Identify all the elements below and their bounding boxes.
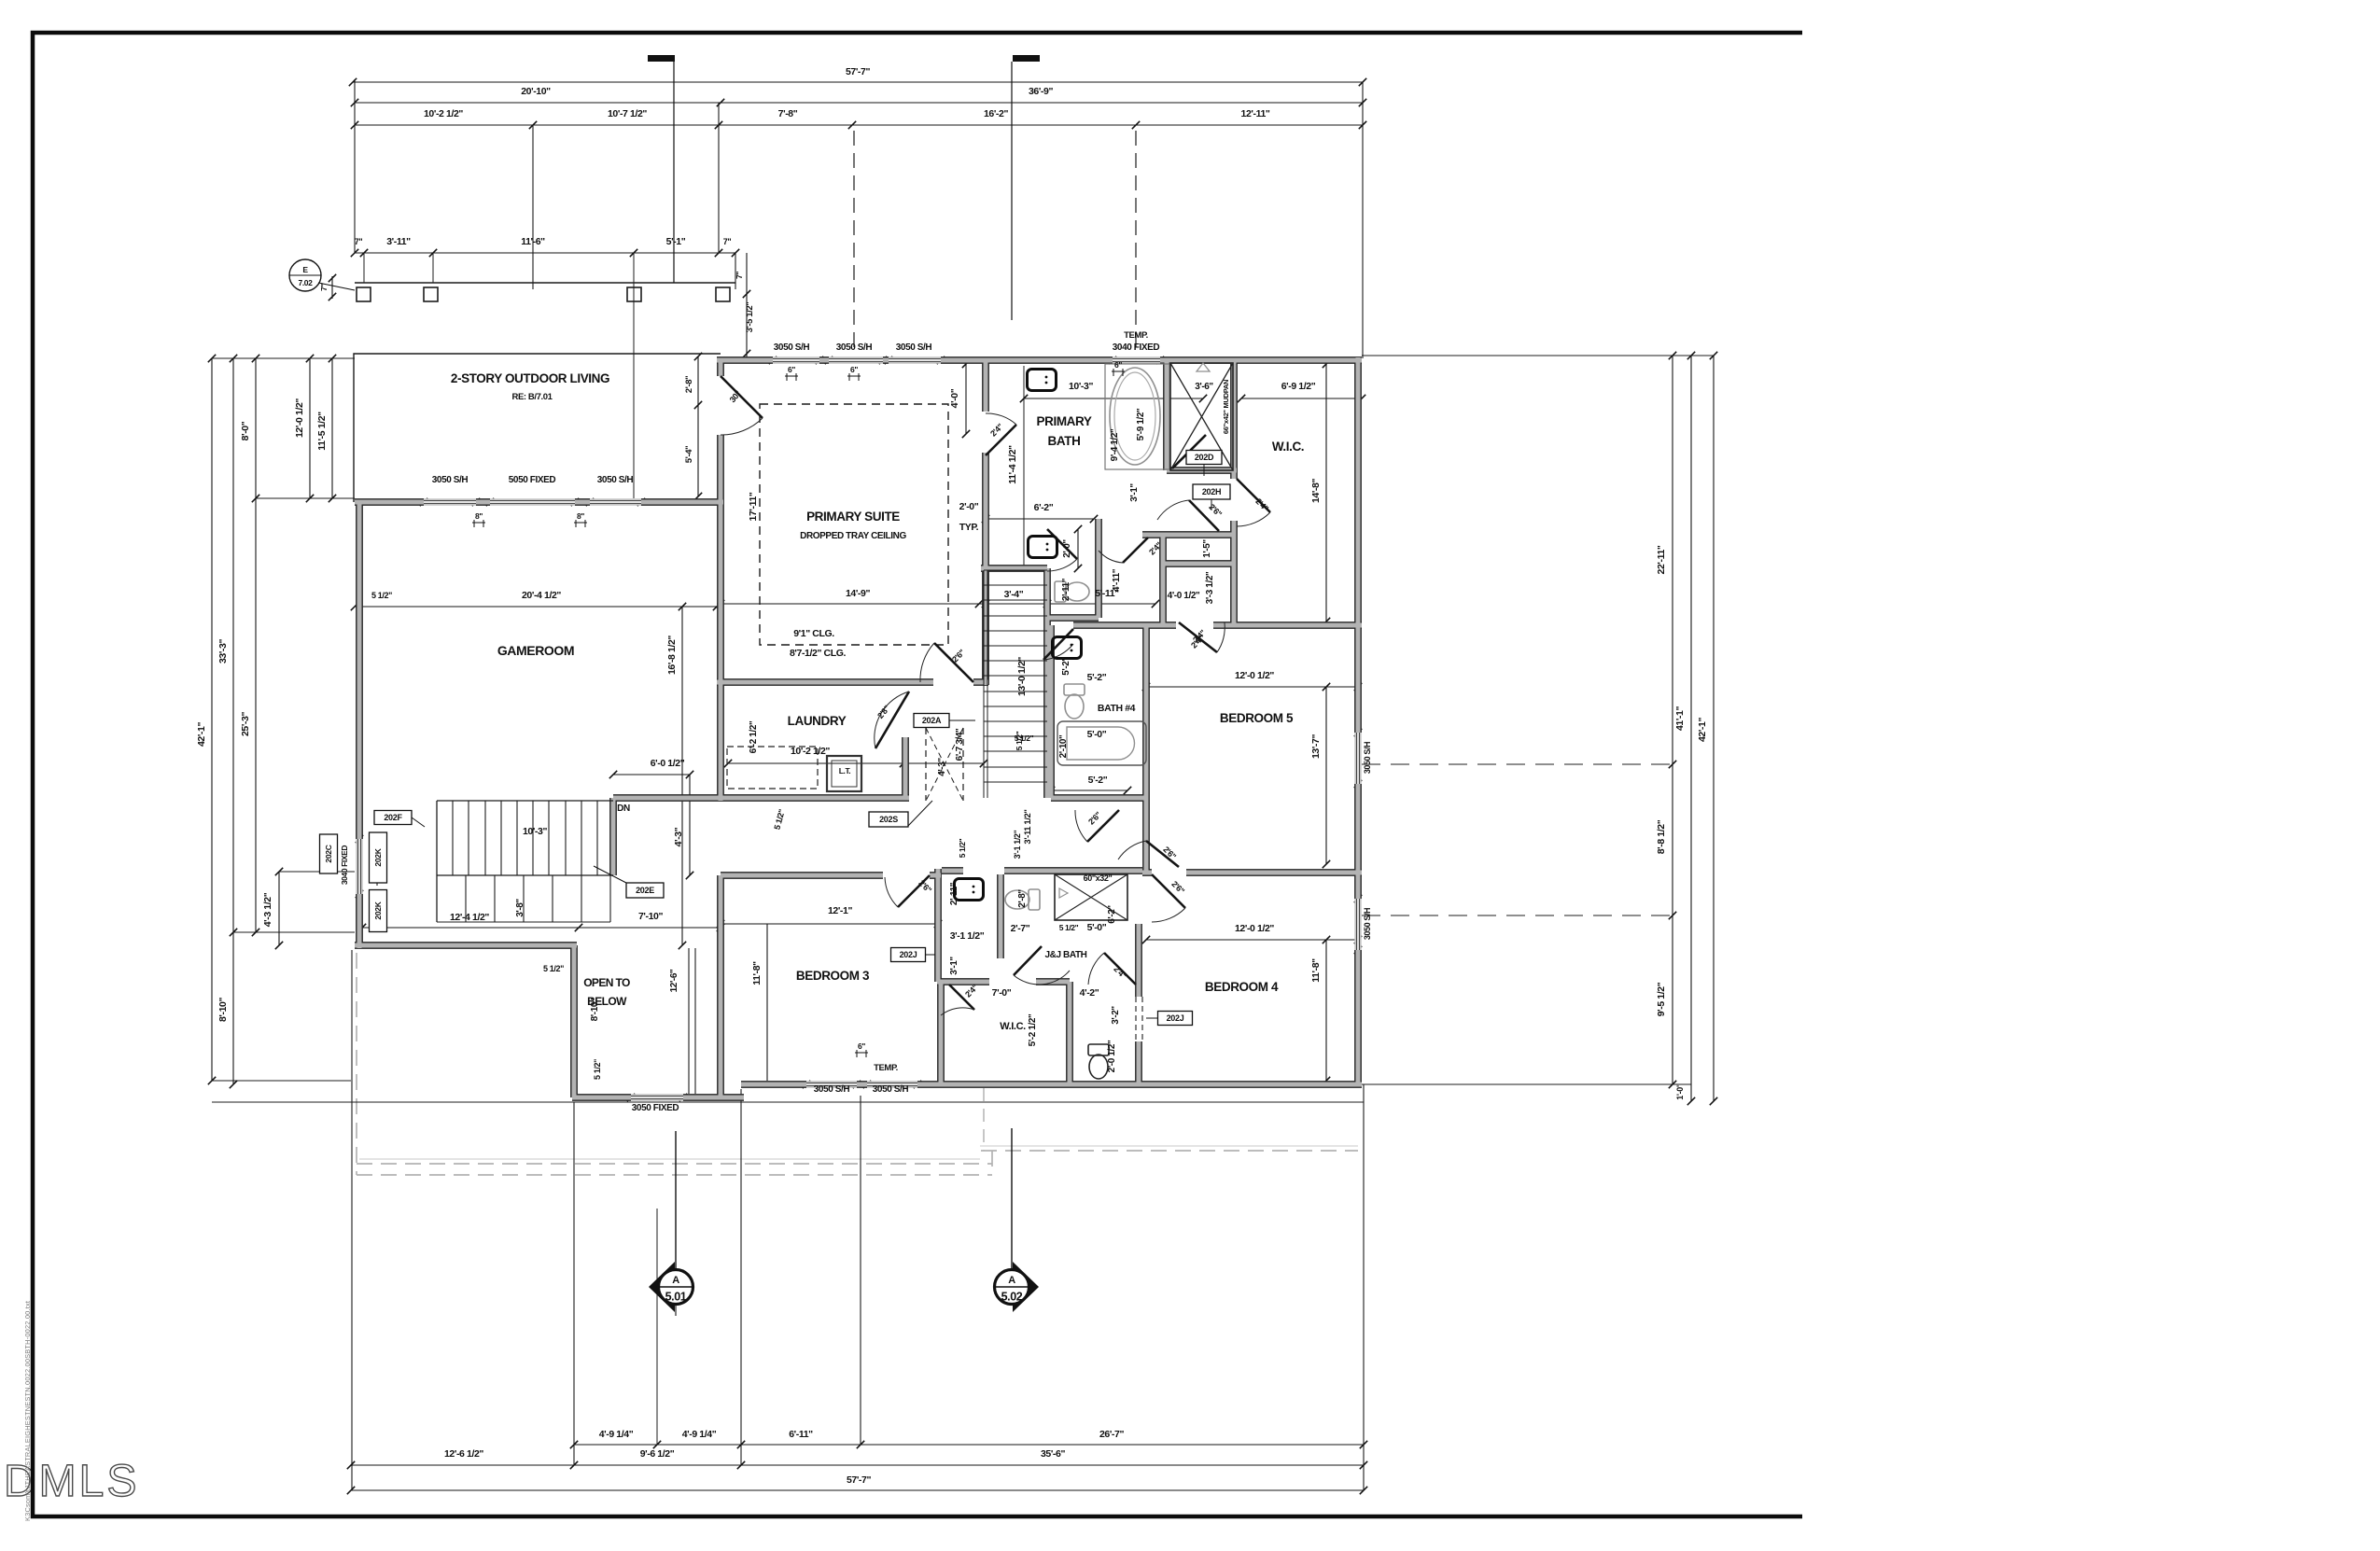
svg-text:GAMEROOM: GAMEROOM bbox=[497, 643, 574, 658]
svg-text:5.02: 5.02 bbox=[1001, 1291, 1023, 1304]
roof outline below (gray dashed) and misc dashed lines bbox=[760, 404, 948, 645]
svg-text:5'-1": 5'-1" bbox=[666, 236, 686, 247]
svg-text:4'-9 1/4": 4'-9 1/4" bbox=[682, 1429, 717, 1440]
svg-text:8'-8 1/2": 8'-8 1/2" bbox=[1656, 819, 1667, 854]
extension / grid thin lines bbox=[354, 79, 356, 253]
svg-text:2'-11": 2'-11" bbox=[1061, 578, 1071, 601]
svg-text:3040 FIXED: 3040 FIXED bbox=[1113, 342, 1160, 353]
svg-text:60"x32": 60"x32" bbox=[1084, 873, 1113, 883]
dimension tick slashes bbox=[208, 78, 1717, 1494]
svg-text:2'-11": 2'-11" bbox=[949, 882, 959, 905]
svg-text:7'-8": 7'-8" bbox=[778, 108, 798, 119]
svg-text:12'-1": 12'-1" bbox=[828, 905, 853, 916]
svg-text:4'-3": 4'-3" bbox=[937, 758, 947, 776]
svg-text:7'-0": 7'-0" bbox=[992, 987, 1012, 999]
svg-text:5'-4": 5'-4" bbox=[684, 446, 694, 464]
svg-text:BEDROOM 5: BEDROOM 5 bbox=[1220, 711, 1294, 725]
svg-text:41'-1": 41'-1" bbox=[1674, 706, 1686, 732]
svg-text:12'-4 1/2": 12'-4 1/2" bbox=[450, 912, 489, 923]
svg-text:9'-4 1/2": 9'-4 1/2" bbox=[1110, 428, 1120, 461]
svg-text:3'-8": 3'-8" bbox=[515, 899, 525, 917]
svg-text:2'-7": 2'-7" bbox=[1011, 923, 1030, 934]
svg-text:6'-7 3/4": 6'-7 3/4" bbox=[955, 728, 965, 761]
label boxes bbox=[1186, 451, 1222, 465]
svg-text:DROPPED TRAY CEILING: DROPPED TRAY CEILING bbox=[800, 531, 906, 541]
open-to-below railing bbox=[689, 948, 695, 1094]
svg-text:8'7-1/2" CLG.: 8'7-1/2" CLG. bbox=[790, 648, 847, 659]
svg-text:9'1" CLG.: 9'1" CLG. bbox=[793, 628, 834, 639]
svg-text:BELOW: BELOW bbox=[587, 995, 627, 1008]
svg-text:3050 S/H: 3050 S/H bbox=[597, 475, 634, 485]
svg-text:PRIMARY: PRIMARY bbox=[1037, 414, 1092, 428]
svg-text:17'-11": 17'-11" bbox=[748, 492, 759, 521]
svg-text:TEMP.: TEMP. bbox=[874, 1063, 898, 1073]
svg-text:9'-6 1/2": 9'-6 1/2" bbox=[640, 1448, 675, 1460]
svg-text:36'-9": 36'-9" bbox=[1029, 86, 1054, 97]
svg-text:E: E bbox=[302, 265, 308, 274]
svg-text:202F: 202F bbox=[384, 813, 402, 822]
svg-text:7.02: 7.02 bbox=[299, 278, 314, 287]
svg-text:8'-0": 8'-0" bbox=[240, 421, 251, 440]
svg-text:2-STORY OUTDOOR LIVING: 2-STORY OUTDOOR LIVING bbox=[451, 371, 609, 385]
svg-text:DN: DN bbox=[617, 803, 630, 814]
svg-text:5 1/2": 5 1/2" bbox=[371, 591, 392, 600]
svg-text:6": 6" bbox=[788, 365, 795, 374]
svg-text:7": 7" bbox=[319, 284, 329, 291]
svg-text:3040 FIXED: 3040 FIXED bbox=[340, 845, 349, 886]
svg-text:26'-7": 26'-7" bbox=[1099, 1429, 1125, 1440]
svg-text:4'-3": 4'-3" bbox=[673, 827, 684, 846]
svg-text:OPEN TO: OPEN TO bbox=[583, 976, 630, 989]
svg-text:3050 S/H: 3050 S/H bbox=[1363, 742, 1372, 774]
svg-text:7'-10": 7'-10" bbox=[638, 911, 664, 922]
svg-text:2'-0 1/2": 2'-0 1/2" bbox=[1107, 1040, 1117, 1072]
svg-text:5'-2": 5'-2" bbox=[1087, 672, 1107, 683]
svg-text:35'-6": 35'-6" bbox=[1041, 1448, 1066, 1460]
svg-text:5 1/2": 5 1/2" bbox=[958, 838, 967, 858]
svg-text:5 1/2": 5 1/2" bbox=[543, 964, 564, 973]
svg-text:25'-3": 25'-3" bbox=[240, 712, 251, 737]
svg-text:42'-1": 42'-1" bbox=[1697, 718, 1708, 743]
svg-text:5'-0": 5'-0" bbox=[1087, 922, 1107, 933]
svg-text:12'-0 1/2": 12'-0 1/2" bbox=[294, 398, 305, 438]
svg-text:3'-1": 3'-1" bbox=[949, 957, 959, 975]
svg-text:12'-0 1/2": 12'-0 1/2" bbox=[1235, 923, 1274, 934]
svg-text:5 1/2": 5 1/2" bbox=[593, 1059, 602, 1080]
svg-text:10'-3": 10'-3" bbox=[1069, 381, 1094, 392]
svg-text:3050 S/H: 3050 S/H bbox=[774, 342, 810, 353]
svg-text:6'-9 1/2": 6'-9 1/2" bbox=[1281, 381, 1316, 392]
svg-text:W.I.C.: W.I.C. bbox=[1272, 440, 1304, 454]
svg-text:J&J BATH: J&J BATH bbox=[1045, 950, 1087, 960]
svg-text:5050 FIXED: 5050 FIXED bbox=[509, 475, 556, 485]
svg-text:12'-11": 12'-11" bbox=[1241, 108, 1270, 119]
svg-text:7": 7" bbox=[355, 237, 363, 246]
svg-text:3'-11 1/2": 3'-11 1/2" bbox=[1023, 809, 1033, 844]
svg-text:4'-0": 4'-0" bbox=[949, 388, 960, 408]
svg-text:16'-8 1/2": 16'-8 1/2" bbox=[666, 636, 678, 675]
svg-text:6'-0 1/2": 6'-0 1/2" bbox=[651, 758, 685, 769]
svg-text:10'-2 1/2": 10'-2 1/2" bbox=[424, 108, 463, 119]
svg-text:K3CsomXJTHEASTRALEIGHESTNESTN.: K3CsomXJTHEASTRALEIGHESTNESTN.0022.00SBT… bbox=[23, 1301, 32, 1521]
svg-text:2'-8": 2'-8" bbox=[1017, 889, 1028, 908]
svg-text:3050 S/H: 3050 S/H bbox=[896, 342, 932, 353]
svg-text:A: A bbox=[1008, 1275, 1015, 1286]
svg-text:6'-2": 6'-2" bbox=[1034, 502, 1054, 513]
svg-text:16'-2": 16'-2" bbox=[984, 108, 1009, 119]
svg-text:4'-9 1/4": 4'-9 1/4" bbox=[599, 1429, 634, 1440]
svg-text:3050 S/H: 3050 S/H bbox=[432, 475, 469, 485]
svg-text:12'-6 1/2": 12'-6 1/2" bbox=[444, 1448, 483, 1460]
svg-text:202E: 202E bbox=[636, 886, 654, 895]
svg-text:10'-3": 10'-3" bbox=[523, 826, 548, 837]
stairs bbox=[983, 570, 985, 798]
svg-text:5'-2": 5'-2" bbox=[1088, 775, 1108, 786]
svg-text:202D: 202D bbox=[1195, 453, 1214, 462]
svg-text:1'-5": 1'-5" bbox=[1202, 539, 1212, 558]
svg-text:6": 6" bbox=[850, 365, 858, 374]
svg-text:2'-8": 2'-8" bbox=[684, 376, 694, 394]
svg-text:TYP.: TYP. bbox=[959, 522, 979, 533]
svg-text:5'-2": 5'-2" bbox=[1061, 657, 1071, 676]
outdoor living thin outline, beam and posts bbox=[354, 354, 721, 502]
svg-text:5'-2 1/2": 5'-2 1/2" bbox=[1028, 1013, 1038, 1046]
svg-text:4'-11": 4'-11" bbox=[1112, 568, 1122, 592]
svg-text:42'-1": 42'-1" bbox=[196, 722, 207, 748]
svg-text:202S: 202S bbox=[879, 815, 898, 824]
svg-text:14'-9": 14'-9" bbox=[846, 588, 871, 599]
svg-text:10'-2 1/2": 10'-2 1/2" bbox=[791, 746, 830, 757]
svg-text:6'-11": 6'-11" bbox=[789, 1429, 813, 1440]
svg-text:9'-5 1/2": 9'-5 1/2" bbox=[1656, 982, 1667, 1016]
svg-text:2'-0": 2'-0" bbox=[1062, 539, 1072, 558]
svg-text:5 1/2": 5 1/2" bbox=[1015, 731, 1024, 750]
svg-text:3050 S/H: 3050 S/H bbox=[873, 1084, 909, 1095]
walls: light core layer bbox=[355, 357, 1362, 1097]
svg-text:2'-10": 2'-10" bbox=[1058, 734, 1069, 758]
svg-text:2'-0": 2'-0" bbox=[959, 501, 979, 512]
svg-text:4'-3 1/2": 4'-3 1/2" bbox=[262, 892, 273, 927]
svg-text:202C: 202C bbox=[324, 845, 333, 862]
svg-text:3'-1 1/2": 3'-1 1/2" bbox=[950, 930, 985, 942]
svg-text:202J: 202J bbox=[900, 950, 917, 959]
svg-text:202K: 202K bbox=[373, 901, 383, 919]
doors bbox=[721, 376, 763, 418]
svg-text:14'-8": 14'-8" bbox=[1310, 479, 1322, 504]
svg-text:3'-6": 3'-6" bbox=[1195, 382, 1213, 392]
svg-text:6": 6" bbox=[1114, 360, 1122, 370]
svg-text:5'-9 1/2": 5'-9 1/2" bbox=[1136, 408, 1146, 440]
svg-text:11'-6": 11'-6" bbox=[521, 236, 545, 247]
svg-text:20'-10": 20'-10" bbox=[521, 86, 551, 97]
svg-text:5'-0": 5'-0" bbox=[1087, 729, 1107, 740]
svg-text:7": 7" bbox=[735, 272, 744, 279]
svg-text:3050 S/H: 3050 S/H bbox=[836, 342, 873, 353]
svg-text:5 1/2": 5 1/2" bbox=[1059, 923, 1079, 932]
svg-text:202K: 202K bbox=[373, 847, 383, 866]
svg-text:57'-7": 57'-7" bbox=[847, 1474, 872, 1486]
svg-text:202J: 202J bbox=[1167, 1013, 1184, 1023]
svg-text:BATH #4: BATH #4 bbox=[1098, 703, 1136, 714]
svg-text:3'-2": 3'-2" bbox=[1111, 1006, 1121, 1025]
svg-text:3'-1": 3'-1" bbox=[1129, 483, 1140, 502]
svg-text:W.I.C.: W.I.C. bbox=[1000, 1021, 1026, 1032]
svg-text:3050 S/H: 3050 S/H bbox=[814, 1084, 850, 1095]
svg-text:13'-7": 13'-7" bbox=[1310, 734, 1322, 760]
svg-text:202A: 202A bbox=[922, 716, 942, 725]
page border frame bbox=[33, 33, 1802, 1516]
svg-text:3'-5 1/2": 3'-5 1/2" bbox=[745, 302, 755, 333]
svg-text:5.01: 5.01 bbox=[665, 1291, 687, 1304]
svg-text:TEMP.: TEMP. bbox=[1124, 330, 1148, 341]
svg-text:6'-2 1/2": 6'-2 1/2" bbox=[749, 720, 759, 753]
svg-text:10'-7 1/2": 10'-7 1/2" bbox=[608, 108, 647, 119]
svg-text:L.T.: L.T. bbox=[839, 766, 851, 775]
dimension lines bbox=[212, 82, 1714, 1490]
svg-text:7": 7" bbox=[723, 237, 732, 246]
svg-text:11'-5 1/2": 11'-5 1/2" bbox=[316, 412, 328, 451]
windows bbox=[359, 360, 1358, 1097]
svg-text:3'-3 1/2": 3'-3 1/2" bbox=[1205, 571, 1215, 604]
section markers / tags bbox=[649, 1262, 675, 1312]
svg-text:3'-11": 3'-11" bbox=[386, 236, 411, 247]
svg-text:33'-3": 33'-3" bbox=[217, 639, 229, 664]
svg-text:LAUNDRY: LAUNDRY bbox=[788, 714, 847, 728]
svg-text:6'-2": 6'-2" bbox=[1107, 905, 1117, 924]
svg-text:BEDROOM 4: BEDROOM 4 bbox=[1205, 980, 1279, 994]
svg-text:8": 8" bbox=[475, 511, 483, 521]
svg-text:12'-6": 12'-6" bbox=[669, 969, 679, 992]
svg-text:8'-10": 8'-10" bbox=[217, 998, 229, 1023]
svg-text:RE: B/7.01: RE: B/7.01 bbox=[512, 392, 553, 402]
svg-text:202H: 202H bbox=[1202, 487, 1221, 496]
svg-text:66"x42" MUDPAN: 66"x42" MUDPAN bbox=[1222, 380, 1230, 434]
svg-text:A: A bbox=[672, 1275, 679, 1286]
svg-text:3'-1 1/2": 3'-1 1/2" bbox=[1013, 830, 1022, 859]
svg-text:57'-7": 57'-7" bbox=[846, 66, 871, 77]
svg-text:BEDROOM 3: BEDROOM 3 bbox=[796, 969, 870, 983]
svg-text:12'-0 1/2": 12'-0 1/2" bbox=[1235, 670, 1274, 681]
svg-text:4'-0 1/2": 4'-0 1/2" bbox=[1168, 591, 1200, 601]
svg-text:6": 6" bbox=[858, 1041, 865, 1051]
svg-text:3'-4": 3'-4" bbox=[1004, 589, 1024, 600]
svg-text:BATH: BATH bbox=[1048, 434, 1081, 448]
svg-text:8": 8" bbox=[577, 511, 584, 521]
svg-text:3050 S/H: 3050 S/H bbox=[1363, 908, 1372, 940]
walls: outer dark layer bbox=[355, 357, 1362, 1097]
fixtures bbox=[1028, 370, 1057, 391]
svg-text:1'-0": 1'-0" bbox=[1675, 1083, 1685, 1100]
svg-text:11'-4 1/2": 11'-4 1/2" bbox=[1007, 445, 1018, 484]
svg-text:3050 FIXED: 3050 FIXED bbox=[632, 1103, 679, 1113]
svg-text:11'-8": 11'-8" bbox=[1310, 958, 1322, 983]
svg-text:20'-4 1/2": 20'-4 1/2" bbox=[522, 590, 561, 601]
svg-text:11'-8": 11'-8" bbox=[751, 961, 763, 985]
svg-text:4'-2": 4'-2" bbox=[1080, 987, 1099, 999]
svg-text:PRIMARY SUITE: PRIMARY SUITE bbox=[806, 510, 900, 524]
svg-text:22'-11": 22'-11" bbox=[1656, 545, 1667, 574]
svg-text:13'-0 1/2": 13'-0 1/2" bbox=[1016, 657, 1028, 696]
